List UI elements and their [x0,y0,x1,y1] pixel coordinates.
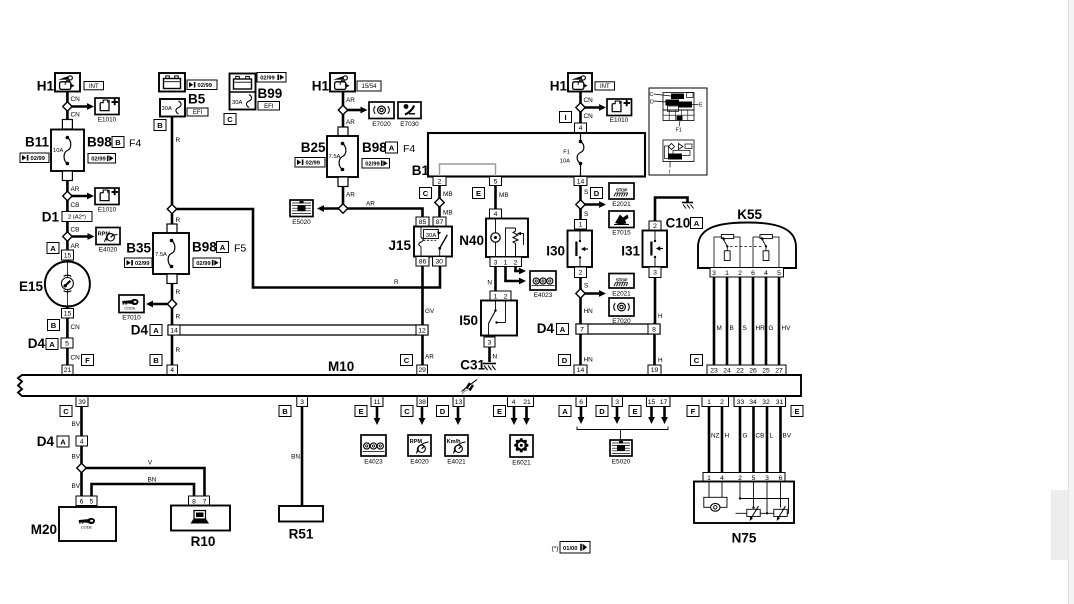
svg-text:14: 14 [577,367,585,374]
svg-text:AR: AR [346,192,355,199]
svg-text:BV: BV [783,433,792,440]
label B25 [301,140,326,155]
svg-text:E7010: E7010 [122,315,141,322]
svg-text:CB: CB [71,202,80,209]
wire BN M20 pin5 to R10 pin8 [92,484,195,496]
svg-text:2 (A2*): 2 (A2*) [68,215,86,221]
svg-text:CB: CB [756,433,765,440]
wire label AR (below B25) [346,192,355,199]
svg-text:MB: MB [443,210,453,217]
svg-text:2: 2 [720,399,724,406]
wire label CB (below D1) [71,227,80,234]
wire label CN (below E15) [71,324,81,331]
wire label CB (N75) [756,433,765,440]
node splice B5/B35/J15 [167,204,176,213]
svg-text:30A: 30A [162,106,172,112]
continuation box 02/99 (B98-A F4 right) [362,159,390,169]
diagnostic feed E5020 (bottom) [610,440,632,456]
svg-text:2: 2 [504,293,508,300]
net tag F (N75) [687,406,699,417]
pin 2 (I31 top) [649,221,661,231]
node splice BV/V [77,463,86,472]
label E2021 (upper) [612,201,631,208]
svg-text:F: F [691,407,696,416]
wire label BN (R51) [291,454,300,461]
svg-text:BN: BN [148,477,157,484]
svg-text:A: A [153,326,159,335]
bus pin 13 [453,397,464,407]
bus pin row 1-2 (N75) [702,397,729,407]
bracket to E5020 [577,427,668,441]
svg-text:32: 32 [762,399,770,406]
svg-text:D4: D4 [28,336,46,351]
svg-text:14: 14 [170,327,178,334]
wire label HR [756,325,766,332]
battery-fuse B99 [230,74,256,110]
svg-text:D1: D1 [42,210,60,225]
svg-text:4: 4 [579,125,583,132]
svg-text:2: 2 [653,223,657,230]
wire MB B1 pin2 to J15 pin87 [438,186,441,218]
pin row 3-1-2 (N40 bottom) [490,257,522,267]
svg-text:H: H [658,313,663,320]
node splice to E7010 [167,299,176,308]
node splice below H1 right [576,103,585,112]
footnote (*) 01/00 [552,542,590,554]
svg-text:D4: D4 [131,323,149,338]
svg-text:INT: INT [89,84,99,90]
wire R B5 junction to J15 pin30 [172,209,440,288]
svg-text:HV: HV [782,325,792,332]
svg-text:BV: BV [71,454,80,461]
wire label BV (lower) [71,483,80,490]
label R10 [191,534,216,549]
arrow pin17 down [661,407,668,425]
label B35 [126,241,151,256]
scrollbar thumb [1051,490,1069,560]
svg-text:BN: BN [291,454,300,461]
svg-text:C: C [423,189,429,198]
svg-text:39: 39 [78,399,86,406]
svg-text:CN: CN [71,355,81,362]
node splice (AR/CB) [63,191,72,200]
bus pin 14 [574,365,587,375]
svg-text:6: 6 [579,399,583,406]
wire label CN (H1-B11 upper) [71,96,81,103]
svg-text:E7020: E7020 [612,318,631,325]
svg-text:E4020: E4020 [99,247,118,254]
svg-text:CN: CN [71,324,81,331]
label E2021 (lower) [612,291,631,298]
svg-text:31: 31 [776,399,784,406]
svg-text:I30: I30 [546,244,565,259]
svg-text:3: 3 [488,339,492,346]
svg-text:E5020: E5020 [612,459,631,466]
svg-text:EFI: EFI [193,110,203,116]
bus pin 29 [417,365,428,375]
svg-text:87: 87 [436,219,444,226]
net tag E (N40 column) [473,188,485,199]
arrow to E7010 [146,301,168,308]
wire G bus pin33 to N75 pin2 [739,407,742,472]
net tag E (pin15-17) [629,406,641,417]
svg-text:R10: R10 [191,534,216,549]
wire label BV (middle) [71,454,80,461]
svg-text:02/99: 02/99 [365,161,380,167]
svg-text:N: N [493,354,498,361]
svg-text:C31: C31 [460,358,485,373]
brake switch I30 [546,231,592,268]
wire label MB (N40 column) [499,192,509,199]
continuation box 02/99 (B98-B right) [88,154,116,164]
brake feed E7020 (top) [369,102,394,119]
arrow to E2021 (upper) [584,201,606,208]
svg-text:14: 14 [577,178,585,185]
svg-text:E7020: E7020 [372,121,391,128]
svg-text:N75: N75 [732,531,757,546]
svg-text:M20: M20 [31,522,57,537]
rev counter feed E4020 (bottom) [408,435,431,456]
connector D4-A single (left, pin 4) [37,434,88,449]
label B11 [25,135,50,150]
svg-text:27: 27 [775,367,783,374]
bus pin 4 [167,365,178,375]
bus pin 21 [62,365,73,375]
wire label V [148,460,153,467]
label B98-A F4 [362,140,415,155]
pin row 3-1-2-6-4-5 (K55) [710,268,784,278]
svg-text:EFI: EFI [264,104,274,110]
svg-text:21: 21 [64,367,72,374]
svg-text:A: A [389,143,395,152]
wire label AR (above bus pin29) [425,354,434,361]
net tag C (above bus pin29) [401,355,413,366]
fusebox legend frame [649,88,707,175]
ECU box B1 [412,133,645,178]
instrument cluster K55 [698,207,796,268]
net tag I (B1 pin4) [560,112,572,123]
net tag D (pin13) [437,406,449,417]
svg-text:F4: F4 [129,138,141,150]
N75 internal valve pair (right) [736,482,789,521]
svg-text:F: F [85,356,90,365]
svg-text:R: R [176,137,181,144]
svg-text:G: G [769,325,774,332]
svg-text:HN: HN [584,308,594,315]
svg-text:C: C [227,115,233,124]
pin 30 (J15) [433,257,447,267]
wire label S (below B1 pin14) [584,189,588,196]
svg-text:E2021: E2021 [612,291,631,298]
label C10-A [666,216,703,231]
wire label AR (above E15) [71,243,80,250]
wire N N40 pin3 to I50 pin1 [494,267,497,292]
pin 5 (B1 bottom) [490,177,502,186]
connector D4-A single (E15 column, pin 5) [28,336,73,351]
net tag D (pin3) [596,406,608,417]
svg-text:30A: 30A [426,233,437,239]
wire label L (N75) [770,433,774,440]
wire label HV [782,325,792,332]
label E4020 (bottom) [410,459,429,466]
arrow pin11 to E4023 [374,407,381,426]
svg-text:E: E [632,407,637,416]
connector stub above B35 [167,224,177,234]
label E4023 (bottom) [364,459,383,466]
svg-text:I: I [669,170,671,176]
svg-text:6: 6 [751,270,755,277]
ignition switch H1 (left) [37,73,80,94]
svg-text:I50: I50 [459,313,478,328]
label E7020 (top) [372,121,391,128]
net tag B (B5) [154,120,166,131]
svg-text:7: 7 [580,326,584,333]
wire label G (K55) [769,325,774,332]
bus pin 3 (R51) [297,397,308,407]
svg-text:B98: B98 [362,140,387,155]
battery feed E1010 (top left) [95,98,119,115]
wire label R (below B35) [176,289,181,296]
speedo feed E4021 [445,435,468,456]
svg-text:E: E [794,407,799,416]
svg-text:21: 21 [523,399,531,406]
battery feed E1010 (right) [607,99,632,116]
arrow to E7020 [347,107,368,114]
wire BV bus pin31 to N75 pin6 [779,407,782,472]
pin 2 (I30 bottom) [575,267,587,278]
svg-text:C: C [404,407,410,416]
wire label H (below D4 pin8) [658,357,663,364]
label E1010 (second) [98,207,117,214]
bus pin row 4-21 (E6021) [508,397,534,407]
svg-text:K55: K55 [737,207,762,222]
wire N40 pin2 arrow to E4023 [514,267,526,275]
svg-text:3: 3 [300,399,304,406]
inertia switch I50 [459,301,517,336]
svg-text:4: 4 [512,399,516,406]
label B98-A F5 [192,240,246,255]
ground C10 symbol [682,203,694,209]
wire H bus pin2 to N75 pin4 [721,407,724,472]
svg-text:02/99: 02/99 [31,156,46,162]
svg-text:AR: AR [346,97,355,104]
label B99 [258,86,283,101]
bus bar M10 [18,375,801,396]
svg-text:22: 22 [736,367,744,374]
svg-text:HN: HN [584,357,594,364]
svg-text:D: D [562,356,568,365]
wire label M [717,325,722,332]
svg-text:B: B [115,138,121,147]
svg-text:5: 5 [777,270,781,277]
wire label NZ [711,433,720,440]
arrow pin38 to E4020 [419,407,426,426]
svg-text:02/99: 02/99 [198,83,213,89]
svg-text:B1: B1 [412,163,430,178]
svg-text:S: S [584,211,588,218]
wire label R (above B35) [176,217,181,224]
connector D4 pin 7 [576,324,588,334]
svg-text:G: G [743,433,748,440]
legend fuse grid [663,110,694,121]
connector bar D4-A (pins 7-8) [576,324,660,334]
label B98-B F4 [87,135,141,150]
gearbox feed E6021 [510,435,533,457]
svg-text:1: 1 [579,222,583,229]
svg-text:4: 4 [80,438,84,445]
svg-text:CODE: CODE [124,306,136,311]
svg-text:33: 33 [737,399,745,406]
connector D1 pin 2 (A2*) [42,210,92,225]
airbag feed E7030 [398,102,421,119]
svg-text:C: C [650,92,654,98]
svg-text:7: 7 [203,498,207,505]
net tag C (pin39) [60,406,72,417]
svg-text:AR: AR [71,243,80,250]
pin 3 (I31 bottom) [649,267,661,278]
wire label N (I50-C31) [493,354,498,361]
svg-text:26: 26 [749,367,757,374]
svg-text:D4: D4 [537,321,555,336]
rev counter feed E4020 (left) [96,228,120,245]
svg-text:E15: E15 [19,279,44,294]
svg-text:4: 4 [170,367,174,374]
continuation box 02/99 (B98-A right) [193,258,221,268]
arrow to E1010 (right) [584,104,606,111]
net tag C (pin38) [401,406,413,417]
svg-text:5: 5 [65,340,69,347]
svg-text:30A: 30A [232,100,242,106]
wire label S (below I30) [584,283,588,290]
svg-text:MB: MB [499,192,509,199]
svg-text:R: R [176,314,181,321]
arrow pin13 to E4021 [455,407,462,426]
svg-text:7.5A: 7.5A [155,252,167,258]
continuation box 02/99 (B99) [257,73,286,83]
label E5020 (bottom) [612,459,631,466]
wire V junction to R10 pin7 [82,468,205,496]
continuation box 02/99 (B25) [295,158,325,168]
svg-text:B99: B99 [258,86,283,101]
net tag A (pin6) [559,406,571,417]
arrow to E1010 (second) [71,193,94,200]
svg-text:NZ: NZ [711,433,720,440]
svg-text:M10: M10 [328,359,354,374]
svg-text:B: B [153,356,159,365]
svg-text:RPM: RPM [410,439,423,445]
wire S K55 pin2 to bus pin22 [739,277,742,375]
wire S/HN B1 pin14 to I30 and bus pin14 [579,186,582,376]
wire label H (above D4 pin8) [658,313,663,320]
wire label CN (H1 right lower) [584,113,594,120]
svg-text:10A: 10A [560,159,570,165]
pin row 8-7 (R10) [189,496,210,506]
K55 internal relay (left) [714,235,740,268]
svg-text:S: S [584,283,588,290]
svg-text:J15: J15 [388,238,411,253]
arrow to E1010 (top left) [71,103,94,110]
label E7030 [400,121,419,128]
svg-text:4: 4 [494,211,498,218]
svg-text:L: L [770,433,774,440]
svg-text:C10: C10 [666,216,691,231]
svg-text:R: R [176,347,181,354]
svg-text:25: 25 [762,367,770,374]
wire label AR (to J15) [366,201,375,208]
immobilizer M20 [31,507,116,541]
svg-text:B98: B98 [192,240,217,255]
tag INT (H1 right) [595,82,615,90]
net tag F (E15 column) [82,355,94,366]
pin 3 (I50 bottom) [484,337,495,347]
svg-text:D: D [650,100,654,106]
svg-text:E2021: E2021 [612,201,631,208]
legend I pointer [669,162,671,176]
svg-text:86: 86 [419,259,427,266]
battery feed E1010 (second) [95,188,119,205]
wire CN/AR H1-B11-E15 vertical (left column) [66,92,69,376]
net tag D (above bus pin14) [559,355,571,366]
svg-text:24: 24 [723,367,731,374]
svg-text:E7030: E7030 [400,121,419,128]
net tag E (N75 right) [791,406,803,417]
label E6021 [512,460,531,467]
relay J15 [388,227,452,257]
wire BV bus pin39 to M20 pin6 [80,396,83,496]
K55 internal relay (right) [753,235,779,268]
wire label S (K55) [743,325,747,332]
connector D4-A label (left) [131,323,162,338]
svg-text:15: 15 [64,311,72,318]
wire label R (above D4) [176,314,181,321]
svg-text:R51: R51 [289,527,314,542]
svg-text:CN: CN [71,112,81,119]
bus pin 39 [76,397,88,407]
svg-text:D: D [594,189,600,198]
battery B5 [159,73,185,92]
svg-text:N40: N40 [459,233,484,248]
svg-text:3: 3 [615,399,619,406]
pin 15 (E15 bottom) [62,309,74,319]
svg-text:AR: AR [346,119,355,126]
bus M10 label [328,359,354,374]
svg-text:C: C [404,356,410,365]
svg-text:B: B [282,407,288,416]
svg-text:R: R [176,289,181,296]
svg-text:E4023: E4023 [534,292,553,299]
bus pin row 15-17 (E5020) [647,397,671,407]
wire label AR (above B25) [346,119,355,126]
svg-text:BV: BV [71,483,80,490]
svg-text:E1010: E1010 [610,117,629,124]
node splice S (upper) [576,200,585,209]
svg-text:F4: F4 [403,143,415,155]
wire CB bus pin34 to N75 pin5 [752,407,755,472]
label N75 [732,531,757,546]
bus pin 3 (E5020) [612,397,623,407]
pin row 1-2 (I50 top) [490,291,511,301]
svg-text:15/54: 15/54 [361,84,377,90]
wire NZ bus pin1 to N75 pin1 [708,407,711,472]
svg-text:15: 15 [64,252,72,259]
continuation box 02/99 (B5) [187,80,217,90]
svg-text:19: 19 [651,367,659,374]
tag 15/54 (H1 middle) [357,81,381,91]
svg-text:11: 11 [373,399,380,406]
connector feed E4023 (middle) [530,271,556,290]
svg-text:H1: H1 [312,79,330,94]
stop feed E2021 (lower) [609,274,634,289]
